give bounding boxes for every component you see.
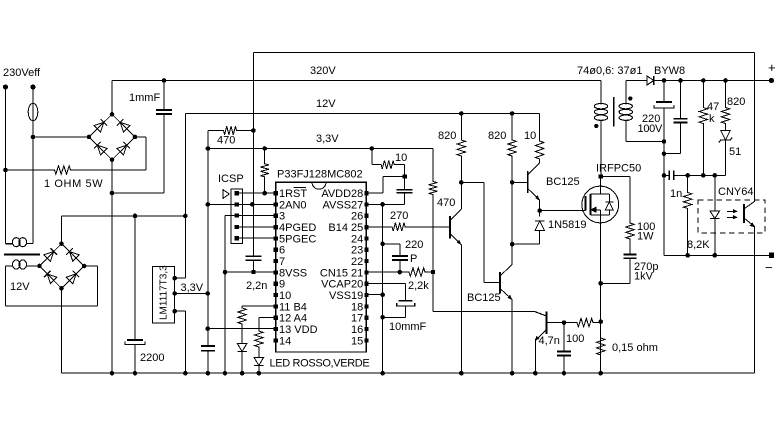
svg-text:9: 9 [279,279,285,291]
svg-text:AVSS27: AVSS27 [323,199,364,211]
svg-text:LM1117T3,3: LM1117T3,3 [159,265,170,320]
svg-text:470: 470 [217,135,235,147]
transistor QB base bar [527,171,529,193]
node 12V riser/LM1117 in [183,214,188,219]
svg-text:6: 6 [279,245,285,257]
wire 220 cap top lead [663,81,665,103]
wire AN0 row [208,203,276,205]
wire minus net vertical [663,108,665,255]
node 5819 return [510,242,515,247]
wire T1 primary bottom lead [600,121,602,177]
IC notch [312,182,326,189]
T1 secondary winding [619,101,632,122]
wire secondary return [626,141,664,143]
capacitor 2200 [127,339,143,341]
wire mains L vertical [5,87,7,244]
wire ICSP5 PGEC [237,237,276,239]
wire 2,2n top [253,204,255,256]
node QD base/4,7n [562,320,567,325]
wire QD emitter to ground [534,341,536,374]
resistor 8,2K [684,175,692,213]
T2 core [4,253,40,255]
resistor 2,2k [366,268,433,276]
IC pin 1 [274,191,278,195]
svg-text:5PGEC: 5PGEC [279,233,316,245]
wire 320V line [112,80,601,82]
opto collector diag [744,201,755,209]
opto emitter diag [744,218,755,227]
svg-text:10: 10 [279,290,291,302]
junction LED/minus [713,253,718,258]
IC pin 8 [274,270,278,274]
svg-text:320V: 320V [310,65,336,77]
ICSP pin3 [235,214,239,218]
wire QC base [484,281,500,283]
junction bridge1-minus/ground [110,371,115,376]
wire pin27 AVSS row [366,203,404,205]
wire bridge2 - down [61,288,63,373]
IC pin 18 [364,304,368,308]
svg-text:47: 47 [707,101,719,113]
wire QD collector line [433,310,534,312]
fuse F1 [28,103,38,120]
MOSFET drain lead [600,176,602,194]
T1 primary winding [594,101,607,122]
svg-text:1mmF: 1mmF [129,92,160,104]
node AN0 row tap [206,202,211,207]
wire LM1117 GND down [184,311,186,373]
svg-text:14: 14 [279,335,291,347]
wire 12V rail [185,113,539,115]
svg-text:k: k [709,113,715,125]
junction secondary return [662,139,667,144]
svg-text:10: 10 [395,152,407,164]
opto emitter arrow [751,223,755,227]
wire 220P top link [383,243,400,245]
svg-text:4,7n: 4,7n [539,335,560,347]
MOSFET IRFPC50 [582,186,619,223]
junction QC/ground [510,371,515,376]
node bridge1 minus / 1mmF [110,191,115,196]
wire 1mmF top lead [163,81,165,111]
wire T2 secondary left [6,265,14,267]
svg-text:BYW8: BYW8 [654,65,685,77]
MOSFET source lead in [600,210,602,223]
svg-text:1N5819: 1N5819 [548,219,587,231]
IC pin 28 [364,191,368,195]
wire MOSFET source down [600,223,602,373]
wire pin28 AVDD stub [366,192,383,194]
B1 diode NW [94,122,104,132]
wire 10ohm to AVDD node [404,165,406,177]
opto transistor bar [743,204,745,223]
svg-text:0,15 ohm: 0,15 ohm [612,342,658,354]
svg-text:2AN0: 2AN0 [279,199,307,211]
svg-text:820: 820 [488,130,506,142]
svg-text:11 B4: 11 B4 [279,301,307,313]
svg-text:13 VDD: 13 VDD [279,324,318,336]
svg-text:17: 17 [351,313,363,325]
node RST pullup [262,191,267,196]
wire 220P bottom [399,260,401,272]
QC emitter diag [500,289,512,300]
LED2 verde [254,358,263,366]
IC pin 17 [364,316,368,320]
resistor 1 OHM 5W [6,166,147,174]
T2 primary winding [12,238,26,247]
wire LM1117 VIN [175,277,186,279]
wire mains N to fuse [32,87,34,103]
wire snubber mid [629,239,631,255]
wire QA emitter to ground [460,245,462,374]
IC pin 15 [364,338,368,342]
ICSP pin4 [235,225,239,229]
svg-text:BC125: BC125 [467,292,501,304]
QC emitter arrow [508,295,512,299]
wire T1 primary top lead [600,81,602,104]
wire QC collector [511,253,513,265]
wire opto LED anode [714,175,716,211]
wire AVDD node left [383,176,405,178]
LED1 rosso [237,344,247,352]
junction QD/ground [533,371,538,376]
wire 8,2K bottom [687,213,689,255]
capacitor 2,2n [246,255,262,257]
node QC base feed [459,180,464,185]
QB emitter arrow [536,196,540,200]
QA emitter diag [450,234,461,245]
svg-text:IRFPC50: IRFPC50 [596,163,641,175]
T2 secondary winding [12,260,26,269]
junction pin19 VSS [380,292,385,297]
QD emitter diag [535,330,546,341]
wire QC emitter to ground [511,300,513,374]
wire 10mmF return [383,316,406,318]
QD collector diag [534,311,546,316]
capacitor 10mmF [399,300,413,302]
wire opto emitter down to ground [754,227,756,374]
junction 8,2K/minus [685,253,690,258]
optocoupler CNY64 box [698,200,765,233]
IC pin 21 [364,270,368,274]
junction cap2 return [662,151,667,156]
node 3,3V/10ohm [370,146,375,151]
node AVSS chain top [380,202,385,207]
wire + output line [654,80,772,82]
IC pin 26 [364,214,368,218]
resistor 0,15 ohm [597,322,605,374]
wire fuse to bridge1 left vertex [33,136,89,138]
svg-text:LED ROSSO,VERDE: LED ROSSO,VERDE [270,358,370,370]
ICSP connector [231,189,243,243]
IC pin 14 [274,338,278,342]
ICSP pin1 [235,191,239,195]
wire bridge1 + up [111,81,113,115]
body diode bottom lead [608,210,610,215]
svg-text:3: 3 [279,211,285,223]
zener 51 [721,131,731,141]
IC pin 2 [274,202,278,206]
ICSP arrow [223,190,229,199]
node 8,2K top [685,173,690,178]
junction LM1117 gnd/ground [183,371,188,376]
resistor 10 drive [536,114,544,164]
svg-text:VSS19: VSS19 [329,290,363,302]
svg-text:26: 26 [351,211,363,223]
node mains L / 1 ohm [3,168,8,173]
wire pin13 VDD row [208,328,276,330]
wire QB base [512,181,528,183]
MOSFET gate bar [585,196,587,211]
capacitor 1mmF [156,109,172,111]
wire 10mmF bottom lead [405,306,407,317]
capacitor output 2 [674,118,688,120]
svg-text:AVDD28: AVDD28 [321,188,363,200]
svg-text:220: 220 [405,239,423,251]
wire - output line [664,254,771,256]
capacitor 4,7n [557,351,571,353]
wire 12V unreg line [62,215,186,217]
- terminal [769,253,774,258]
wire bridge1 - down to ground [111,160,113,374]
svg-text:820: 820 [727,96,745,108]
junction 820-1/12V [459,111,464,116]
wire T2 primary left [6,243,14,245]
wire 820-2 bottom chain [511,182,513,253]
opto light arrow 1 [727,211,735,213]
wire fuse to bridge1/transformer [32,121,34,244]
svg-text:1W: 1W [637,231,654,243]
capacitor 1n [670,173,673,177]
wire bridge1 right vertex [135,136,146,138]
wire LM1117 GND [175,310,186,312]
resistor 47k [699,81,707,176]
IC pin 3 [274,214,278,218]
svg-text:12 A4: 12 A4 [279,313,307,325]
IC pin 16 [364,327,368,331]
svg-text:1n: 1n [670,188,682,200]
svg-text:CN15 21: CN15 21 [320,267,363,279]
svg-text:16: 16 [351,324,363,336]
wire 5819 return row [512,243,540,245]
svg-text:1RST: 1RST [279,188,307,200]
wire ICSP4 PGED [237,226,276,228]
node 2200 top [133,214,138,219]
wire cap2 top lead [680,81,682,119]
wire VSS drop [224,216,226,374]
wire LM1117 VOUT [175,293,208,295]
wire avdd cap bottom [404,193,406,205]
B1 diode SE [117,145,127,155]
svg-text:2,2n: 2,2n [246,280,267,292]
svg-text:ICSP: ICSP [218,173,244,185]
QD emitter arrow [535,337,539,341]
B2 diode SW [47,274,57,284]
B2 diode NE [70,252,80,262]
node 220/100V top [662,78,667,83]
T1 core [613,97,615,126]
wire cap2 return [664,153,681,155]
capacitor 270p 1kV [624,254,637,256]
transistor QA base bar [449,216,451,238]
svg-text:B14 25: B14 25 [328,222,363,234]
B2 diode NW [44,252,54,262]
wire QB emitter to gate node [539,200,541,217]
junction 2,2k/3,3V drop [431,270,435,274]
wire ICSP1 to RST [237,192,276,194]
junction 10mmF return [380,315,385,320]
wire 4,7n bottom [563,356,565,374]
wire 1mmF bottom lead [163,114,165,193]
svg-text:230Veff: 230Veff [3,67,41,79]
IC pin 20 [364,282,368,286]
IC U1 P33FJ128MC802 [276,182,367,352]
svg-text:+: + [768,60,776,75]
junction 4,7n/ground [562,371,567,376]
svg-text:23: 23 [351,245,363,257]
wire BYW8 anode [626,80,647,82]
svg-text:2,2k: 2,2k [408,280,429,292]
MOSFET drain link [591,193,601,195]
bridge rectifier B2 [40,244,85,289]
IC pin 23 [364,248,368,252]
wire gate line [540,210,586,212]
svg-text:15: 15 [351,335,363,347]
MOSFET arrow [591,207,596,212]
IC pin 6 [274,248,278,252]
svg-text:10mmF: 10mmF [389,321,427,333]
node 220P top [380,242,385,247]
wire 3,3V rail [208,148,433,150]
wire 208 cap to ground [207,351,209,374]
wire 2,2n bottom [253,260,255,272]
junction VDD/3,3V net [205,326,210,331]
node QB base [510,180,515,185]
wire pin11 B4 row [242,305,276,307]
svg-text:7: 7 [279,256,285,268]
resistor RST pullup [261,149,269,194]
junction VSS/ground [223,371,228,376]
resistor 100 sense [564,318,602,326]
wire ground rail [62,372,755,374]
svg-text:12V: 12V [10,281,30,293]
wire 270 to QA base [411,226,450,228]
node 47k top [701,78,706,83]
junction LED1/ground [240,371,245,376]
resistor 10 [372,161,405,169]
wire T1 secondary top lead [625,81,627,104]
svg-text:8,2K: 8,2K [687,239,710,251]
svg-text:P: P [410,253,417,265]
regulator LM1117T3,3 [152,267,174,323]
svg-text:4PGED: 4PGED [279,222,316,234]
svg-text:24: 24 [351,233,363,245]
junction VSS row [223,270,228,275]
IC pin 4 [274,225,278,229]
resistor 100 1W [626,176,634,254]
wire bridge1 AC2 down [145,137,147,170]
svg-text:74ø0,6: 37ø1: 74ø0,6: 37ø1 [577,65,642,77]
body diode top lead [608,194,610,202]
transistor QC base bar [499,272,501,294]
diode 1N5819 [535,221,545,231]
resistor 470 sense [208,126,254,134]
QB emitter diag [528,189,540,201]
wire cap2 bottom lead [680,123,682,154]
capacitor AVDD decoupling [397,189,413,191]
wire 820-1 bottom [460,182,462,209]
MOSFET body diode [605,202,613,210]
node opto LED top [713,173,718,178]
T1 primary phase dot [594,124,598,128]
capacitor 220 P [392,255,408,257]
svg-text:CNY64: CNY64 [718,186,753,198]
junction shunt/ground [598,371,603,376]
wire QC base feed h [461,181,484,183]
RST overline [294,186,307,188]
wire VSS row pin8 [225,271,276,273]
junction 208/ground [206,371,211,376]
wire 10ohm left lead [371,149,373,165]
svg-text:1kV: 1kV [634,271,654,283]
wire 2200 bottom lead [134,344,136,373]
wire LED1 to ground [241,352,243,373]
IC pin 13 [274,327,278,331]
IC pin 27 [364,202,368,206]
+ terminal [769,78,774,83]
wire 220P drop [399,244,401,256]
body diode bottom link [601,214,610,216]
IC pin 12 [274,316,278,320]
svg-text:100V: 100V [638,123,663,135]
wire T2 sec return up [96,266,98,306]
node sense/470 [251,128,256,133]
svg-text:100: 100 [566,333,584,345]
wire 10mmF top lead [405,283,407,300]
node fuse/bridge1 AC [31,135,36,140]
wire snubber drop [629,176,631,223]
junction sense/AN0 [250,202,255,207]
svg-text:3,3V: 3,3V [181,282,204,294]
junction QA/ground [459,371,464,376]
wire zener bottom lead [725,140,727,175]
resistor 820-1 [457,114,465,183]
junction 1n [662,173,667,178]
wire 5819 bottom [539,231,541,245]
IC pin 25 [364,225,368,229]
resistor 820 out [721,81,729,131]
wire snubber bottom [629,258,631,283]
svg-text:10: 10 [524,130,536,142]
resistor LED1 [238,306,246,344]
svg-text:8VSS: 8VSS [279,267,307,279]
wire sense vertical [252,53,254,205]
B1 diode SW [97,145,107,155]
wire output sense top rail [253,52,754,54]
junction AVSS/ground [380,371,385,376]
node gate [537,208,542,213]
MOSFET body link [591,209,601,211]
wire pin19 VSS stub [366,294,382,296]
ICSP pin2 [235,202,239,206]
opto LED [710,211,720,219]
bridge rectifier B1 [89,114,135,159]
svg-text:820: 820 [438,130,456,142]
resistor LED2 [255,317,263,357]
wire vsense line [664,174,726,176]
body diode top link [601,193,610,195]
wire snubber return [601,282,630,284]
